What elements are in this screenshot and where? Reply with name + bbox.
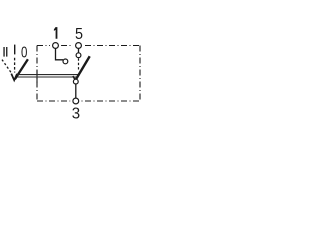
wire to terminal 3 [75,84,77,98]
actuator arm position II dashed [2,60,12,74]
contact a (from terminal 1) [63,59,68,64]
enclosure left edge [36,46,38,102]
label terminal 1 [54,27,58,39]
svg-text:0: 0 [21,44,27,61]
svg-text:5: 5 [75,26,83,43]
linkage arrowhead [73,76,78,80]
contact lever [76,56,90,80]
terminal 3 [73,98,79,104]
contact b (from terminal 5) [76,53,81,58]
enclosure top edge [37,45,140,47]
actuator arrowhead [11,74,17,81]
enclosure right edge [139,46,141,102]
label position II [3,47,7,57]
svg-text:3: 3 [72,106,80,123]
terminal 1 [53,43,59,49]
lever pivot contact [73,79,78,84]
label position I [14,45,15,55]
actuator position I dashed [14,58,16,73]
actuator lever at position 0 [15,59,28,79]
wire from terminal 5 [78,48,80,52]
mechanical linkage lower line [17,76,78,78]
terminal white masks on enclosure edges [51,41,83,106]
terminal 5 [76,43,82,49]
mechanical linkage upper line [17,74,80,76]
lever alternate position dashed [78,58,80,71]
wire from terminal 1 [56,48,64,59]
enclosure left edge solid piece at linkage crossing [36,70,38,82]
enclosure bottom edge [37,100,140,102]
